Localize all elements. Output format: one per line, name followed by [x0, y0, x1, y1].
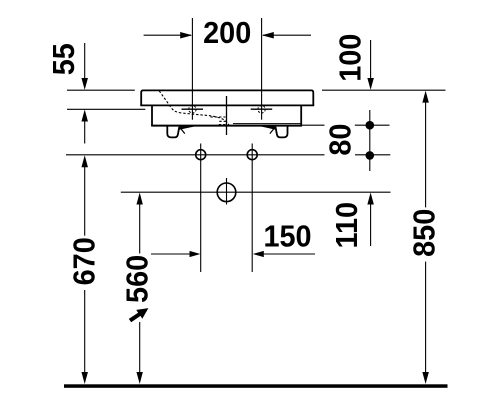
svg-text:670: 670: [67, 237, 101, 285]
svg-text:110: 110: [330, 202, 364, 248]
svg-text:560: 560: [120, 255, 154, 303]
svg-text:150: 150: [263, 219, 311, 253]
svg-text:55: 55: [47, 43, 81, 75]
svg-text:100: 100: [333, 34, 367, 82]
svg-text:80: 80: [323, 124, 357, 156]
svg-text:200: 200: [203, 16, 251, 50]
svg-text:850: 850: [407, 209, 441, 257]
